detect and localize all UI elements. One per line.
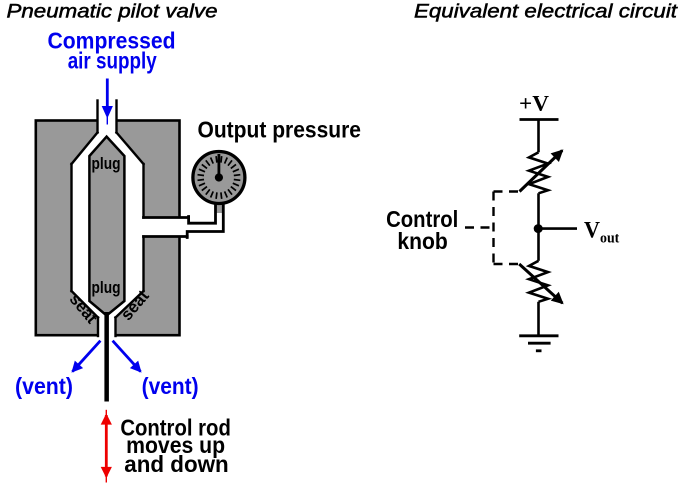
control rod: [104, 312, 109, 402]
vent arrow right (blue): [113, 341, 141, 372]
wire: R2 to ground: [537, 302, 540, 336]
cavity right wall upper: [142, 164, 144, 218]
vent arrow left (blue): [73, 341, 101, 372]
cavity right wall lower: [142, 237, 144, 292]
inlet flare right: [117, 133, 144, 165]
ground symbol: [519, 336, 558, 351]
wire: node to Vout: [539, 227, 578, 230]
pipe to gauge (walls): [187, 204, 223, 238]
inlet tube left wall: [96, 101, 98, 133]
outlet channel bottom edge: [144, 235, 188, 238]
wire: node to R2: [537, 229, 540, 261]
svg-text:+V: +V: [519, 90, 549, 115]
pressure gauge: [193, 152, 245, 204]
air supply arrow (blue, down): [102, 79, 113, 125]
resistor R2 (lower, variable): [529, 261, 548, 302]
svg-text:air supply: air supply: [68, 48, 157, 74]
svg-text:out: out: [600, 230, 619, 246]
control rod motion arrow (red, double headed): [105, 415, 108, 477]
inlet tube right wall: [115, 101, 117, 133]
rod slot left wall: [97, 318, 99, 337]
inlet flare left: [72, 133, 98, 165]
svg-text:plug: plug: [92, 278, 121, 297]
svg-text:knob: knob: [397, 228, 447, 254]
cavity left wall: [70, 164, 72, 291]
plug (gray): [89, 137, 124, 316]
svg-text:Equivalent electrical circuit: Equivalent electrical circuit: [414, 1, 679, 23]
rod slot right wall: [114, 318, 116, 337]
+V supply rail bar: [520, 118, 559, 121]
seat taper right: [116, 291, 144, 318]
gauge needle: [217, 154, 220, 178]
dashed mechanical link (control knob bracket): [465, 192, 520, 265]
wire: rail to R1: [537, 120, 540, 153]
R1 wiper arrow: [520, 151, 563, 192]
svg-text:Pneumatic pilot valve: Pneumatic pilot valve: [7, 1, 218, 23]
seat taper left: [72, 291, 99, 318]
R2 wiper arrow: [519, 264, 562, 303]
valve internal cavity (white): [72, 100, 182, 337]
node (junction dot): [534, 224, 543, 233]
wire: R1 to node: [537, 193, 540, 228]
svg-text:plug: plug: [92, 154, 121, 173]
svg-text:(vent): (vent): [142, 373, 199, 399]
svg-text:V: V: [584, 217, 600, 242]
svg-text:Output pressure: Output pressure: [198, 117, 362, 143]
cavity / channel outlines: [72, 101, 189, 337]
valve body (gray block): [36, 121, 180, 336]
outlet channel top edge: [144, 216, 189, 219]
gauge stem: [215, 200, 224, 213]
svg-text:and down: and down: [124, 451, 229, 477]
svg-text:(vent): (vent): [15, 373, 73, 399]
resistor R1 (upper, variable): [529, 152, 548, 193]
